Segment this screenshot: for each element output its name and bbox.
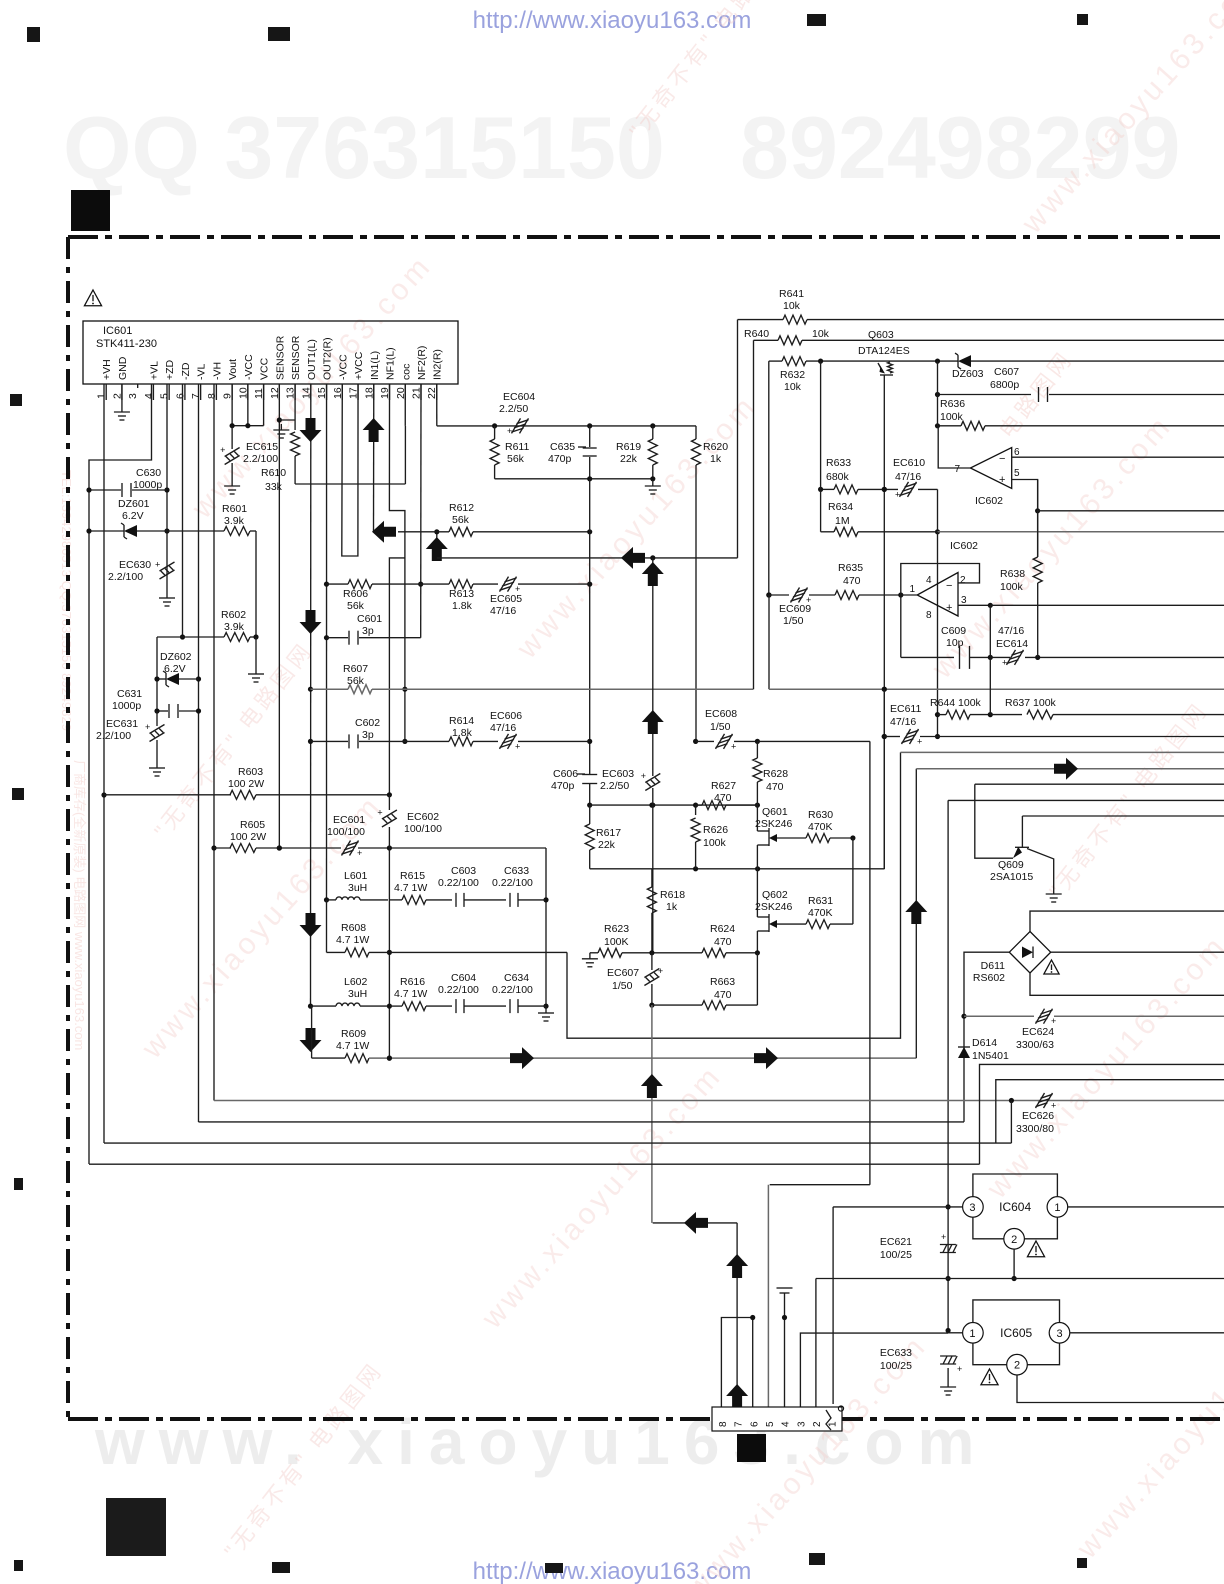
resistor R644 100k: [938, 714, 947, 716]
svg-text:4.7 1W: 4.7 1W: [336, 934, 369, 946]
svg-text:EC631: EC631: [106, 718, 138, 730]
resistor R636 100k: [938, 425, 962, 427]
wire EC609 node down: [768, 595, 770, 689]
svg-text:3300/80: 3300/80: [1016, 1123, 1054, 1135]
connector pin6 wire: [752, 1318, 754, 1408]
svg-text:NF2(R): NF2(R): [416, 346, 428, 380]
EC633 100/25: [940, 1355, 956, 1357]
resistor R624 470: [702, 948, 726, 957]
row R603 100 2W: [104, 794, 231, 796]
svg-text:-ZD: -ZD: [180, 362, 192, 380]
wire D611 bottom: [1030, 973, 1224, 995]
op-amp IC602 upper: [970, 448, 1011, 489]
wire jog to EC602 chain: [389, 558, 405, 795]
vertical C635 chain down: [589, 479, 591, 774]
svg-text:DZ601: DZ601: [118, 498, 150, 510]
svg-text:C634: C634: [504, 972, 529, 984]
svg-text:R627: R627: [711, 780, 736, 792]
svg-text:3p: 3p: [362, 729, 374, 741]
svg-text:+: +: [946, 602, 952, 614]
svg-text:R631: R631: [808, 895, 833, 907]
svg-text:0.22/100: 0.22/100: [492, 984, 533, 996]
svg-text:2.2/100: 2.2/100: [243, 453, 278, 465]
svg-text:470: 470: [843, 575, 861, 587]
resistor R627 470: [696, 804, 702, 806]
row 510.8 to right: [1038, 510, 1224, 512]
zener DZ603: [958, 355, 971, 367]
resistor R640 10k: [753, 340, 755, 689]
svg-text:1000p: 1000p: [133, 479, 162, 491]
resistor R620 1k vertical: [695, 426, 697, 439]
svg-text:8: 8: [718, 1421, 729, 1427]
riser 995.8 and row 1079.7: [996, 1080, 1224, 1143]
bus down to EC607: [652, 805, 654, 953]
svg-text:+: +: [895, 489, 900, 499]
svg-text:R608: R608: [341, 922, 366, 934]
svg-text:R623: R623: [604, 923, 629, 935]
wire IC604 pin3 row corner down to connector: [832, 1207, 834, 1404]
wire IC605 pin3 right: [1070, 1332, 1224, 1334]
svg-text:R616: R616: [400, 976, 425, 988]
svg-text:7: 7: [954, 464, 960, 475]
vertical bus 870: [869, 741, 871, 1184]
resistor R610 33k vertical: [294, 420, 296, 430]
svg-text:3: 3: [127, 393, 139, 399]
svg-text:+: +: [507, 426, 512, 436]
svg-text:+: +: [357, 848, 362, 858]
EC609 1/50: [766, 592, 771, 597]
svg-text:+: +: [941, 1232, 946, 1242]
svg-text:IC604: IC604: [999, 1200, 1031, 1214]
row 689.2 gray right portion: [769, 688, 1224, 690]
svg-text:+: +: [1002, 657, 1007, 667]
outer left wire from pin4: [89, 384, 152, 1164]
svg-text:0.22/100: 0.22/100: [438, 984, 479, 996]
row R607 56k gray: [311, 688, 349, 690]
svg-text:R633: R633: [826, 457, 851, 469]
bottom rail R611/C635/R619: [495, 478, 653, 480]
svg-text:1k: 1k: [666, 901, 678, 913]
svg-text:4: 4: [781, 1421, 792, 1427]
svg-text:IC605: IC605: [1000, 1326, 1032, 1340]
wire opamp1 pin6 to right: [1012, 456, 1224, 458]
svg-text:+: +: [658, 966, 663, 976]
svg-text:+: +: [957, 1364, 962, 1374]
svg-text:6: 6: [1014, 447, 1020, 458]
svg-text:2.2/50: 2.2/50: [600, 780, 629, 792]
svg-text:100 2W: 100 2W: [228, 778, 264, 790]
capacitor C630 1000p: [89, 489, 121, 491]
zener DZ601 6.2V: [89, 530, 124, 532]
svg-text:R637 100k: R637 100k: [1005, 697, 1057, 709]
svg-text:2: 2: [1011, 1234, 1017, 1246]
svg-text:+: +: [515, 741, 520, 751]
resistor R633 680k: [821, 488, 834, 490]
row 1100.5 bus with EC626: [214, 1100, 1224, 1102]
svg-text:3.9k: 3.9k: [224, 515, 245, 527]
svg-text:C604: C604: [451, 972, 476, 984]
svg-text:EC608: EC608: [705, 708, 737, 720]
resistor R628 470 vertical: [756, 741, 758, 758]
svg-text:2.2/100: 2.2/100: [96, 730, 131, 742]
svg-text:C633: C633: [504, 865, 529, 877]
svg-text:+VH: +VH: [101, 359, 113, 380]
svg-text:EC626: EC626: [1022, 1110, 1054, 1122]
svg-text:-VH: -VH: [211, 362, 223, 380]
wire DZ601 row to R601: [167, 530, 224, 532]
svg-text:7: 7: [734, 1421, 745, 1427]
svg-text:C606: C606: [553, 768, 578, 780]
capacitor C604 0.22/100: [455, 999, 457, 1013]
wire IC605 pin1 row: [948, 1332, 963, 1334]
svg-text:+: +: [220, 445, 225, 455]
resistor R632 10k: [768, 361, 770, 595]
resistor R616 4.7 1W: [402, 1002, 426, 1011]
svg-text:4: 4: [926, 575, 932, 586]
resistor R626 100k vertical: [695, 805, 697, 815]
connector pin3 wire: [800, 1333, 948, 1407]
capacitor C607 6800p: [938, 394, 1032, 396]
resistor R635 470: [835, 591, 859, 600]
connector pin8 wire: [721, 1318, 752, 1408]
svg-text:0.22/100: 0.22/100: [492, 877, 533, 889]
row 531.8 right gray to edge: [938, 531, 1224, 533]
pin19 NF1(L) wire with jog: [389, 384, 405, 741]
wire EC626 left down: [1010, 1101, 1012, 1144]
svg-text:47/16: 47/16: [890, 716, 916, 728]
svg-text:1: 1: [909, 584, 915, 595]
svg-text:1k: 1k: [710, 453, 722, 465]
ground stub pin12: [280, 424, 282, 430]
svg-text:DZ602: DZ602: [160, 651, 192, 663]
svg-text:OUT2(R): OUT2(R): [322, 337, 334, 380]
svg-text:R612: R612: [449, 502, 474, 514]
svg-text:EC630: EC630: [119, 559, 151, 571]
wire pin3-node down to R644: [989, 657, 991, 714]
svg-text:D614: D614: [972, 1037, 997, 1049]
svg-text:1M: 1M: [835, 515, 850, 527]
svg-text:SENSOR: SENSOR: [274, 335, 286, 380]
svg-text:DTA124ES: DTA124ES: [858, 345, 910, 357]
wire R602 left down to DZ602: [156, 637, 158, 711]
svg-text:+: +: [155, 560, 160, 570]
svg-text:100K: 100K: [604, 936, 629, 948]
row R608 4.7 1W: [327, 951, 346, 953]
connector pin5 wire gray: [767, 1185, 769, 1407]
pin15 OUT2(R) long wire down: [326, 384, 328, 900]
wire R602 row: [157, 636, 224, 638]
svg-text:+ZD: +ZD: [164, 359, 176, 380]
wire opamp2 output row: [901, 594, 917, 596]
Q603 collector down: [883, 383, 885, 869]
row R609 4.7 1W gray: [312, 1057, 345, 1059]
resistor R615 4.7 1W: [402, 895, 426, 904]
row C602 3p / R614 / EC606: [311, 740, 349, 742]
svg-text:EC614: EC614: [996, 638, 1028, 650]
svg-text:R609: R609: [341, 1028, 366, 1040]
wire IC605 pin2 down-right: [1017, 1375, 1224, 1403]
svg-text:R624: R624: [710, 923, 735, 935]
svg-text:EC604: EC604: [503, 391, 535, 403]
svg-text:DZ603: DZ603: [952, 368, 984, 380]
svg-text:3: 3: [969, 1202, 975, 1214]
svg-text:3p: 3p: [362, 625, 374, 637]
resistor R601 3.9k: [224, 527, 250, 536]
svg-text:R636: R636: [940, 398, 965, 410]
svg-text:R607: R607: [343, 663, 368, 675]
svg-text:100k: 100k: [940, 411, 964, 423]
svg-text:L602: L602: [344, 976, 368, 988]
svg-text:EC621: EC621: [880, 1236, 912, 1248]
svg-text:33k: 33k: [265, 481, 283, 493]
svg-text:56k: 56k: [347, 675, 365, 687]
row R644 to right / R637 100k: [990, 714, 1022, 716]
svg-text:R614: R614: [449, 715, 474, 727]
resistor R602 3.9k: [224, 633, 250, 642]
connector 8p box: [712, 1407, 842, 1431]
svg-text:3uH: 3uH: [348, 988, 367, 1000]
svg-text:R619: R619: [616, 441, 641, 453]
svg-text:4.7 1W: 4.7 1W: [394, 988, 427, 1000]
EC610 47/16: [900, 482, 909, 497]
svg-text:IN1(L): IN1(L): [369, 351, 381, 380]
black square below connector: [737, 1434, 766, 1462]
EC605 47/16: [500, 577, 509, 592]
Q609 collector to ground: [1027, 849, 1054, 889]
pin21 NF2(R) wire: [420, 384, 422, 638]
wire R630 to R631 link: [852, 838, 854, 924]
row 1143.1 bus: [104, 1142, 1011, 1144]
svg-text:−: −: [946, 580, 952, 592]
wire Q603 row to DZ603: [890, 360, 958, 362]
EC601 100/100: [342, 841, 351, 856]
resistor R617 22k vertical: [585, 824, 594, 850]
capacitor C634 0.22/100: [509, 999, 511, 1013]
ground below R602 right: [255, 637, 257, 668]
svg-text:R632: R632: [780, 369, 805, 381]
svg-text:C630: C630: [136, 467, 161, 479]
svg-text:2SA1015: 2SA1015: [990, 871, 1033, 883]
svg-text:0.22/100: 0.22/100: [438, 877, 479, 889]
wire pin14 corner to R609 row: [311, 1006, 312, 1058]
wire opamp1 pin5 down to row 510.8: [1012, 480, 1038, 558]
wire pin15 corner to R608 row: [326, 900, 328, 953]
svg-text:VCC: VCC: [259, 357, 271, 380]
svg-text:3: 3: [796, 1421, 807, 1427]
EC602 100/100 vertical: [388, 795, 390, 810]
EC611 47/16: [882, 734, 887, 739]
svg-text:1/50: 1/50: [783, 615, 804, 627]
capacitor C601 3p: [327, 637, 349, 639]
op-amp IC602 lower: [917, 573, 958, 617]
row 784 Q609 top: [975, 783, 1224, 785]
svg-text:SENSOR: SENSOR: [290, 335, 302, 380]
row 557.9 to R641 riser: [437, 557, 738, 559]
svg-text:47/16: 47/16: [490, 605, 516, 617]
svg-text:EC602: EC602: [407, 811, 439, 823]
svg-text:2SK246: 2SK246: [755, 818, 793, 830]
row 805 to R627: [590, 804, 758, 806]
svg-text:R630: R630: [808, 809, 833, 821]
row 1184.7 pin5 to bus riser: [770, 1184, 870, 1186]
capacitor C631 1000p: [157, 710, 168, 712]
row R606 56k / C601: [327, 583, 349, 585]
svg-text:5: 5: [1014, 468, 1020, 479]
resistor R613 1.8k: [449, 580, 473, 589]
svg-text:NF1(L): NF1(L): [385, 347, 397, 380]
wire pin3 node down to EC614 row: [989, 605, 991, 657]
riser 979.5 and row 1064.4: [980, 1064, 1224, 1164]
svg-text:+: +: [917, 737, 922, 747]
row L601 3uH: [327, 899, 337, 901]
capacitor C609 10p: [901, 656, 954, 658]
svg-text:C609: C609: [941, 625, 966, 637]
wire opamp1 output to R636 node: [938, 426, 970, 468]
EC630 2.2/100: [160, 562, 175, 571]
black block top-left: [71, 190, 110, 231]
svg-text:1: 1: [1054, 1202, 1060, 1214]
pin22 IN2(R) wire to EC604 row: [436, 384, 438, 426]
capacitor C633 0.22/100: [509, 893, 511, 907]
wire R601 right down to R602: [255, 531, 257, 637]
resistor R631 470K: [777, 923, 806, 925]
svg-text:R610: R610: [261, 467, 286, 479]
svg-text:coc: coc: [400, 364, 412, 380]
resistor R611 56k vertical: [490, 439, 499, 465]
svg-text:R638: R638: [1000, 568, 1025, 580]
wire EC608 row to 870 riser: [757, 740, 870, 742]
pins16-17 VCC U-link: [342, 384, 358, 556]
svg-text:EC615: EC615: [246, 441, 278, 453]
svg-text:+: +: [731, 741, 736, 751]
svg-text:厂商库存(全新原装) 电路图网 www.xiaoyu163.: 厂商库存(全新原装) 电路图网 www.xiaoyu163.com: [72, 760, 87, 1050]
row EC604 2.2/50: [437, 425, 696, 427]
svg-text:GND: GND: [117, 356, 129, 380]
svg-text:2: 2: [812, 1421, 823, 1427]
svg-text:QQ 376315150: QQ 376315150: [63, 98, 665, 197]
row EC611 to right edge: [938, 736, 1224, 738]
svg-text:+: +: [641, 771, 646, 781]
pin1 +VH wire down to R603 row and bottom-left frame: [103, 384, 105, 1143]
opamp2 feedback loop pin2: [901, 564, 980, 658]
vertical Q603-DZ603 node: [937, 361, 939, 426]
diode D614 1N5401: [958, 1047, 970, 1058]
wire R663 up to Q602 source: [756, 953, 758, 1005]
svg-text:-VL: -VL: [196, 364, 208, 381]
bridge D611 RS602: [1009, 932, 1050, 973]
svg-text:680k: 680k: [826, 471, 850, 483]
ground below C634 right: [545, 1007, 547, 1013]
vertical 948 down to IC604/IC605: [947, 800, 949, 1330]
svg-text:47/16: 47/16: [895, 471, 921, 483]
ground below R619: [652, 480, 654, 486]
capacitor C635 470p vertical: [589, 426, 591, 447]
svg-text:Vout: Vout: [227, 359, 239, 380]
svg-text:100/25: 100/25: [880, 1249, 912, 1261]
svg-text:R605: R605: [240, 819, 265, 831]
svg-text:+VL: +VL: [148, 361, 160, 380]
svg-text:10k: 10k: [812, 328, 830, 340]
svg-text:2.2/100: 2.2/100: [108, 571, 143, 583]
wire pin22 down to row 558: [436, 532, 438, 558]
wire IC604 pin3 row: [833, 1206, 963, 1208]
svg-text:STK411-230: STK411-230: [96, 338, 157, 350]
svg-text:C635: C635: [550, 441, 575, 453]
svg-text:6800p: 6800p: [990, 379, 1019, 391]
svg-text:+: +: [999, 474, 1005, 486]
zener DZ602 6.2V: [157, 678, 166, 680]
pin2 ground: [121, 384, 123, 406]
svg-text:R620: R620: [703, 441, 728, 453]
svg-text:10k: 10k: [783, 300, 801, 312]
svg-text:R615: R615: [400, 870, 425, 882]
svg-text:470: 470: [714, 936, 732, 948]
svg-text:IN2(R): IN2(R): [432, 349, 444, 380]
pin12 SENSOR wire down to R605 row: [278, 384, 280, 848]
svg-text:470: 470: [766, 781, 784, 793]
row 1122 bus: [199, 1121, 965, 1123]
svg-text:R613: R613: [449, 588, 474, 600]
svg-text:L601: L601: [344, 870, 368, 882]
svg-text:6.2V: 6.2V: [122, 510, 144, 522]
svg-text:−: −: [999, 453, 1005, 465]
row 800 to IC604 chain: [948, 799, 1224, 801]
svg-text:C602: C602: [355, 717, 380, 729]
svg-text:Q603: Q603: [868, 329, 894, 341]
EC631 2.2/100: [150, 725, 165, 734]
svg-text:+VCC: +VCC: [353, 351, 365, 380]
svg-text:R644 100k: R644 100k: [930, 697, 982, 709]
svg-text:3uH: 3uH: [348, 882, 367, 894]
wire R609 loop up to row 768.7: [915, 769, 917, 1058]
row 753 to right edge gray: [901, 751, 1224, 753]
row 1164.2 bus: [89, 1163, 980, 1165]
svg-text:2: 2: [960, 575, 966, 586]
pin18 IN1(L) wire with arrows: [373, 384, 375, 532]
svg-text:R635: R635: [838, 562, 863, 574]
svg-text:EC609: EC609: [779, 603, 811, 615]
vertical EC602 chain down: [388, 848, 390, 1058]
pin6 -ZD wire: [182, 384, 184, 637]
black block bottom-left: [106, 1498, 166, 1556]
EC624 3300/63: [1036, 1009, 1045, 1024]
svg-text:22k: 22k: [598, 839, 616, 851]
svg-text:1000p: 1000p: [112, 700, 141, 712]
svg-text:5: 5: [765, 1421, 776, 1427]
svg-text:C631: C631: [117, 688, 142, 700]
wire R610 to pin20 coc: [295, 483, 405, 485]
EC626 3300/80: [1036, 1093, 1045, 1108]
EC607 1/50: [644, 969, 659, 978]
resistor R614 1.8k: [449, 737, 473, 746]
transistor Q609 2SA1015: [1015, 846, 1029, 848]
EC615 2.2/100 with ground: [231, 426, 233, 449]
wire IC604 pin2 down: [1013, 1249, 1015, 1278]
svg-text:56k: 56k: [347, 600, 365, 612]
wire D611 left down: [964, 952, 1009, 1122]
ground below EC633: [947, 1368, 949, 1381]
svg-text:IC601: IC601: [103, 325, 132, 337]
svg-text:470K: 470K: [808, 907, 833, 919]
connector pin4 wire with top cap: [784, 1293, 786, 1407]
svg-text:R663: R663: [710, 976, 735, 988]
svg-text:1.8k: 1.8k: [452, 600, 473, 612]
svg-text:6: 6: [749, 1421, 760, 1427]
EC614 47/16: [1007, 650, 1016, 665]
svg-text:R641: R641: [779, 288, 804, 300]
svg-text:100/100: 100/100: [404, 823, 442, 835]
svg-text:3: 3: [961, 595, 967, 606]
